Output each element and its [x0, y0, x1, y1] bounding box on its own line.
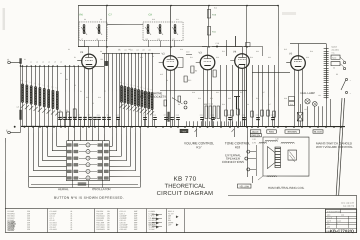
svg-text:L·C: L·C: [38, 84, 40, 86]
svg-text:10-46: 10-46: [337, 221, 341, 223]
svg-text:1W: 1W: [107, 229, 110, 231]
svg-text:L24: L24: [318, 95, 321, 97]
svg-text:C5: C5: [78, 115, 80, 117]
svg-text:R13: R13: [211, 115, 214, 117]
svg-text:C27: C27: [271, 115, 274, 117]
svg-text:L·C: L·C: [21, 80, 23, 82]
svg-text:C10: C10: [152, 19, 155, 21]
svg-text:CIRCUIT DIAGRAM: CIRCUIT DIAGRAM: [157, 191, 214, 197]
svg-text:PICK-UP SOCKETS: PICK-UP SOCKETS: [140, 95, 166, 99]
svg-text:R5: R5: [143, 115, 145, 117]
svg-text:C8: C8: [100, 19, 102, 21]
svg-text:L15: L15: [145, 39, 148, 41]
svg-text:R6: R6: [80, 12, 84, 16]
svg-text:200-250V: 200-250V: [332, 50, 340, 52]
svg-text:L·C: L·C: [47, 85, 49, 87]
svg-text:L·C: L·C: [120, 82, 122, 84]
svg-text:C7: C7: [109, 12, 113, 16]
svg-text:CONNECTIONS: CONNECTIONS: [222, 160, 244, 164]
svg-text:V6: V6: [333, 68, 335, 70]
svg-text:C12: C12: [86, 97, 89, 99]
svg-text:L6: L6: [60, 61, 62, 63]
svg-text:L19: L19: [252, 139, 255, 141]
svg-text:GREEN: GREEN: [252, 134, 261, 137]
svg-text:C9 .0003: C9 .0003: [49, 229, 56, 231]
svg-text:DIAL LAMP: DIAL LAMP: [301, 91, 316, 95]
svg-text:RED: RED: [269, 131, 274, 134]
svg-text:C19: C19: [216, 43, 219, 45]
svg-text:YELLOW: YELLOW: [239, 186, 249, 188]
svg-text:ISS: ISS: [327, 224, 329, 226]
svg-text:L·C: L·C: [147, 88, 149, 90]
svg-text:L12: L12: [124, 49, 127, 51]
svg-text:WITH VOLUME CONTROL: WITH VOLUME CONTROL: [316, 145, 353, 149]
svg-text:L16: L16: [148, 49, 151, 51]
svg-text:R3: R3: [88, 115, 90, 117]
svg-text:L3: L3: [42, 61, 44, 63]
svg-text:C18: C18: [186, 52, 189, 54]
svg-text:R2: R2: [66, 110, 68, 112]
svg-text:R9: R9: [178, 104, 180, 106]
svg-text:C27: C27: [262, 92, 265, 94]
svg-text:R10: R10: [214, 8, 217, 10]
svg-text:L4: L4: [48, 61, 50, 63]
svg-text:C29 .005: C29 .005: [119, 229, 126, 231]
svg-text:SH 2 1 OF 2 PP: SH 2 1 OF 2 PP: [341, 203, 355, 205]
svg-text:KB 770: KB 770: [173, 176, 196, 183]
svg-text:R15: R15: [284, 49, 287, 51]
svg-text:C13: C13: [140, 57, 143, 59]
svg-text:L20: L20: [275, 139, 278, 141]
svg-text:C15: C15: [160, 74, 163, 76]
svg-text:L·C: L·C: [127, 84, 129, 86]
svg-text:8MF: 8MF: [134, 229, 138, 231]
svg-text:R3: R3: [80, 91, 82, 93]
svg-text:V2: V2: [162, 51, 166, 55]
svg-text:V5 U31: V5 U31: [7, 230, 13, 232]
svg-text:R11: R11: [190, 57, 193, 59]
svg-text:L·C: L·C: [123, 83, 125, 85]
svg-text:R16: R16: [256, 98, 259, 100]
svg-text:R14: R14: [222, 104, 225, 106]
svg-text:R2: R2: [68, 115, 70, 117]
svg-text:C20: C20: [216, 57, 219, 59]
svg-text:C2: C2: [60, 73, 62, 75]
svg-text:R18: R18: [235, 145, 241, 149]
svg-text:R7: R7: [104, 91, 106, 93]
svg-text:L26: L26: [17, 106, 20, 108]
svg-text:L1: L1: [30, 61, 32, 63]
svg-text:ISS 2 KB 770: ISS 2 KB 770: [343, 206, 354, 208]
svg-text:R12: R12: [188, 80, 191, 82]
svg-text:C15: C15: [176, 115, 179, 117]
svg-text:C16: C16: [180, 49, 183, 51]
svg-text:R9: R9: [195, 71, 197, 73]
svg-text:C25: C25: [228, 98, 231, 100]
svg-text:OFF: OFF: [168, 224, 172, 226]
svg-text:T4 OSC: T4 OSC: [148, 229, 155, 231]
svg-text:2.7Ω: 2.7Ω: [252, 142, 256, 144]
svg-text:L·C: L·C: [34, 83, 36, 85]
svg-text:BROWN: BROWN: [288, 131, 297, 134]
svg-text:L17: L17: [172, 39, 175, 41]
svg-text:L·C: L·C: [25, 81, 27, 83]
svg-text:C11: C11: [97, 115, 100, 117]
svg-text:C21: C21: [200, 115, 203, 117]
svg-text:C4: C4: [59, 110, 61, 112]
svg-text:OSCILLATOR: OSCILLATOR: [92, 187, 112, 191]
svg-text:L23: L23: [304, 109, 307, 111]
svg-text:C5: C5: [74, 85, 76, 87]
svg-text:BLUE: BLUE: [252, 131, 259, 134]
svg-text:C14: C14: [153, 115, 156, 117]
svg-text:R18 50KΩ: R18 50KΩ: [96, 228, 105, 231]
svg-text:C6: C6: [84, 19, 86, 21]
svg-text:L15: L15: [142, 49, 145, 51]
svg-text:L16: L16: [157, 39, 160, 41]
svg-text:L·C: L·C: [56, 87, 58, 89]
svg-text:C1: C1: [24, 59, 26, 61]
svg-text:R17: R17: [196, 145, 202, 149]
svg-text:R5: R5: [92, 103, 94, 105]
svg-text:A.C.: A.C.: [332, 51, 336, 54]
svg-text:S2: S2: [336, 74, 338, 76]
svg-text:C3: C3: [68, 49, 70, 51]
svg-text:BUTTON Nº6 IS SHOWN DEPRES: BUTTON Nº6 IS SHOWN DEPRESSED.: [54, 196, 124, 200]
svg-text:+C28: +C28: [182, 131, 186, 133]
svg-text:R8: R8: [101, 59, 103, 61]
svg-text:R13: R13: [210, 98, 213, 100]
svg-text:L·C: L·C: [137, 86, 139, 88]
svg-text:L·C: L·C: [144, 88, 146, 90]
svg-text:DRN: DRN: [327, 215, 330, 217]
svg-text:L·C: L·C: [134, 85, 136, 87]
svg-text:R4: R4: [152, 56, 154, 58]
svg-text:MAINS: MAINS: [332, 46, 338, 49]
svg-text:R1: R1: [74, 57, 76, 59]
svg-text:C30: C30: [306, 57, 309, 59]
svg-text:L14: L14: [136, 49, 139, 51]
svg-text:C29: C29: [284, 98, 287, 100]
svg-text:C21: C21: [216, 92, 219, 94]
svg-text:R15: R15: [240, 92, 243, 94]
svg-text:L7: L7: [81, 39, 83, 41]
svg-text:C11: C11: [176, 19, 179, 21]
svg-text:BLACK: BLACK: [314, 131, 322, 134]
svg-text:L·C: L·C: [140, 87, 142, 89]
svg-text:L5: L5: [54, 61, 56, 63]
svg-text:R12: R12: [198, 98, 201, 100]
svg-text:R2: R2: [66, 79, 68, 81]
svg-text:R13: R13: [222, 51, 225, 53]
svg-text:L2: L2: [36, 61, 38, 63]
svg-text:C17: C17: [172, 98, 175, 100]
svg-text:AERIAL: AERIAL: [58, 187, 69, 191]
svg-text:HUM NEUTRALISING COIL: HUM NEUTRALISING COIL: [268, 186, 305, 190]
svg-text:L·C: L·C: [51, 86, 53, 88]
svg-text:L13: L13: [130, 49, 133, 51]
svg-text:C4: C4: [58, 115, 60, 117]
svg-text:C26: C26: [246, 104, 249, 106]
svg-text:V3: V3: [199, 51, 203, 55]
svg-text:C14: C14: [98, 97, 101, 99]
svg-text:L8: L8: [96, 39, 98, 41]
svg-text:KB-C7702/Q: KB-C7702/Q: [330, 228, 354, 233]
svg-text:V1: V1: [80, 50, 84, 54]
svg-text:L·C: L·C: [30, 82, 32, 84]
svg-text:C20: C20: [204, 104, 207, 106]
svg-text:V4: V4: [233, 50, 237, 54]
svg-text:.01: .01: [70, 229, 72, 231]
svg-text:R16: R16: [310, 51, 313, 53]
svg-text:L·C: L·C: [43, 84, 45, 86]
svg-text:R14: R14: [250, 57, 253, 59]
svg-text:L·C: L·C: [130, 84, 132, 86]
svg-text:THEORETICAL: THEORETICAL: [165, 184, 206, 190]
svg-text:C23: C23: [268, 57, 271, 59]
svg-text:FUSE: FUSE: [332, 57, 336, 59]
svg-text:C19: C19: [192, 92, 195, 94]
svg-text:C22: C22: [172, 117, 175, 119]
svg-text:C12: C12: [116, 115, 119, 117]
svg-text:C9: C9: [100, 51, 102, 53]
svg-text:R4: R4: [107, 115, 109, 117]
svg-text:R8: R8: [166, 80, 168, 82]
svg-text:L11: L11: [118, 49, 121, 51]
svg-text:V5: V5: [289, 52, 293, 56]
svg-text:C22: C22: [256, 51, 259, 53]
svg-text:R7: R7: [164, 115, 166, 117]
svg-text:R17: R17: [268, 104, 271, 106]
svg-text:C9: C9: [149, 12, 153, 16]
